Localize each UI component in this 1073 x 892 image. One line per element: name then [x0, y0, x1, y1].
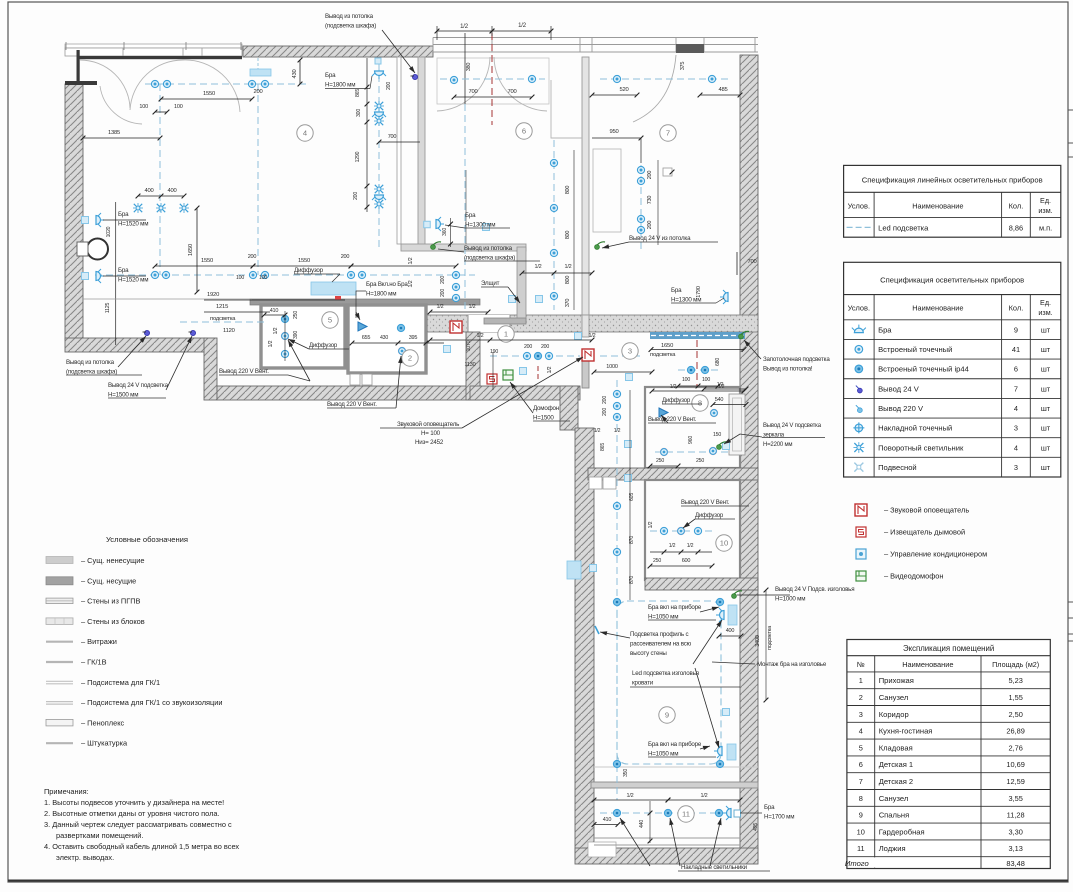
svg-text:1/2: 1/2 [468, 304, 475, 310]
svg-text:Вывод из потолка: Вывод из потолка [464, 245, 513, 252]
svg-text:250: 250 [653, 558, 661, 564]
svg-text:1/2: 1/2 [614, 428, 621, 434]
svg-text:2,76: 2,76 [1008, 743, 1022, 752]
svg-text:высоту стены: высоту стены [630, 650, 667, 657]
svg-text:Бра: Бра [671, 287, 682, 294]
svg-text:700: 700 [468, 89, 477, 95]
svg-text:– Подсистема для ГК/1 со звуко: – Подсистема для ГК/1 со звукоизоляции [81, 698, 223, 707]
svg-text:Н=1300 мм: Н=1300 мм [465, 222, 495, 229]
svg-text:3,55: 3,55 [1008, 794, 1022, 803]
svg-text:485: 485 [718, 87, 727, 93]
svg-text:Вывод 24 V из потолка: Вывод 24 V из потолка [629, 235, 691, 242]
svg-text:700: 700 [388, 134, 397, 140]
svg-text:Н= 100: Н= 100 [421, 430, 441, 437]
svg-text:шт: шт [1041, 404, 1051, 413]
svg-text:Н=1800 мм: Н=1800 мм [325, 82, 355, 89]
svg-text:1/2: 1/2 [408, 280, 414, 287]
svg-text:5,23: 5,23 [1008, 676, 1022, 685]
svg-text:Наименование: Наименование [902, 660, 953, 669]
svg-text:200: 200 [341, 254, 350, 260]
svg-text:3,13: 3,13 [1008, 844, 1022, 853]
svg-text:шт: шт [1041, 345, 1051, 354]
svg-text:950: 950 [609, 129, 618, 135]
svg-text:360: 360 [442, 228, 448, 236]
svg-text:200: 200 [248, 254, 257, 260]
svg-text:495: 495 [753, 823, 759, 831]
svg-text:680: 680 [715, 358, 721, 366]
svg-text:Детская 1: Детская 1 [879, 760, 913, 769]
svg-text:Вывод 24 V: Вывод 24 V [878, 384, 920, 393]
svg-text:605: 605 [629, 493, 635, 501]
svg-text:12,59: 12,59 [1006, 777, 1025, 786]
svg-text:3. Данный чертеж следует расс: 3. Данный чертеж следует рассматривать с… [44, 820, 232, 829]
svg-text:подсветка: подсветка [210, 316, 236, 322]
svg-text:Бра Вкл.но Бра: Бра Вкл.но Бра [366, 281, 408, 288]
svg-text:– Видеодомофон: – Видеодомофон [884, 572, 943, 581]
svg-text:– Стены из ПГПВ: – Стены из ПГПВ [81, 597, 141, 606]
svg-text:1130: 1130 [464, 362, 475, 368]
svg-text:400: 400 [144, 188, 153, 194]
svg-text:Бра: Бра [118, 211, 129, 218]
svg-text:Ед.: Ед. [1040, 196, 1051, 205]
svg-text:1/2: 1/2 [460, 24, 469, 30]
svg-text:6: 6 [1014, 365, 1018, 374]
svg-text:Led подсветка изголовья: Led подсветка изголовья [632, 670, 699, 677]
svg-text:7: 7 [666, 129, 670, 138]
svg-text:960: 960 [688, 436, 694, 444]
svg-text:41: 41 [1012, 345, 1020, 354]
svg-text:Элщит: Элщит [481, 280, 500, 287]
svg-text:м.п.: м.п. [1039, 223, 1052, 232]
svg-text:1: 1 [504, 330, 508, 339]
svg-text:700: 700 [507, 89, 516, 95]
svg-text:Бра: Бра [764, 804, 775, 811]
svg-text:Н=1520 мм: Н=1520 мм [118, 277, 148, 284]
svg-text:изм.: изм. [1038, 206, 1052, 215]
svg-text:390: 390 [293, 331, 299, 339]
svg-text:865: 865 [355, 89, 361, 97]
svg-text:Н=1300 мм: Н=1300 мм [671, 297, 701, 304]
svg-text:1215: 1215 [216, 304, 228, 310]
svg-text:1000: 1000 [606, 364, 618, 370]
svg-text:200: 200 [602, 396, 608, 404]
svg-text:1/2: 1/2 [534, 264, 541, 270]
svg-text:Ед.: Ед. [1040, 298, 1051, 307]
svg-text:100: 100 [174, 104, 183, 110]
svg-text:Вывод 220 V Вент.: Вывод 220 V Вент. [219, 368, 269, 375]
svg-text:Вывод 24 V подсветка: Вывод 24 V подсветка [108, 382, 169, 389]
svg-text:– Звуковой оповещатель: – Звуковой оповещатель [884, 506, 969, 515]
svg-text:развертками помещений.: развертками помещений. [56, 831, 143, 840]
svg-text:190: 190 [490, 349, 498, 355]
svg-text:11: 11 [857, 844, 865, 853]
svg-text:Н=1000 мм: Н=1000 мм [775, 596, 805, 603]
svg-text:200: 200 [386, 82, 392, 90]
svg-text:100: 100 [236, 275, 244, 281]
svg-text:1650: 1650 [188, 244, 194, 256]
svg-text:870: 870 [629, 576, 635, 584]
svg-text:Кол.: Кол. [1009, 201, 1024, 210]
svg-text:200: 200 [647, 221, 653, 230]
svg-text:300: 300 [356, 109, 362, 117]
svg-text:Низ= 2452: Низ= 2452 [415, 439, 444, 446]
svg-text:– Витражи: – Витражи [81, 637, 117, 646]
svg-text:100: 100 [702, 377, 710, 383]
svg-text:Встроеный точечный ip44: Встроеный точечный ip44 [878, 365, 969, 374]
svg-text:(подсветка шкафа): (подсветка шкафа) [464, 255, 515, 262]
svg-text:410: 410 [270, 308, 279, 314]
svg-text:10: 10 [720, 539, 728, 548]
svg-text:Вывод 220 V Вент.: Вывод 220 V Вент. [681, 500, 730, 506]
svg-text:200: 200 [353, 192, 359, 200]
svg-text:Н=1050 мм: Н=1050 мм [648, 751, 678, 758]
svg-text:Вывод из потолка: Вывод из потолка [325, 13, 374, 20]
svg-text:шт: шт [1041, 384, 1051, 393]
svg-text:Домофон: Домофон [533, 405, 559, 412]
svg-text:1/2: 1/2 [594, 428, 601, 434]
svg-text:5: 5 [328, 316, 332, 325]
svg-text:1/2: 1/2 [700, 793, 707, 799]
svg-text:1290: 1290 [355, 151, 361, 162]
svg-text:6: 6 [522, 127, 526, 136]
svg-text:370: 370 [565, 299, 571, 308]
svg-text:Н=1500: Н=1500 [533, 415, 554, 422]
svg-text:Н=1800 мм: Н=1800 мм [366, 291, 396, 298]
svg-text:9: 9 [859, 811, 863, 820]
svg-text:4. Оставить свободный кабель: 4. Оставить свободный кабель длиной 1,5 … [44, 842, 239, 851]
svg-text:655: 655 [362, 335, 371, 341]
svg-text:9: 9 [665, 711, 669, 720]
svg-text:– Извещатель дымовой: – Извещатель дымовой [884, 528, 965, 537]
svg-text:520: 520 [619, 87, 628, 93]
svg-text:шт: шт [1041, 443, 1051, 452]
svg-text:11,28: 11,28 [1007, 811, 1025, 820]
svg-text:Led подсветка: Led подсветка [878, 223, 929, 232]
svg-text:подсветка: подсветка [767, 625, 773, 650]
svg-text:– Сущ. ненесущие: – Сущ. ненесущие [81, 556, 144, 565]
svg-text:4: 4 [303, 129, 307, 138]
svg-text:800: 800 [565, 276, 571, 285]
svg-text:Н=2200 мм: Н=2200 мм [763, 442, 792, 448]
svg-text:1020: 1020 [106, 226, 112, 237]
svg-text:№: № [857, 660, 865, 669]
svg-text:1070: 1070 [466, 340, 472, 351]
svg-text:Поворотный светильник: Поворотный светильник [878, 443, 964, 452]
svg-text:Подвесной: Подвесной [878, 463, 917, 472]
svg-text:4: 4 [1014, 404, 1018, 413]
svg-text:250: 250 [293, 311, 299, 319]
svg-text:7: 7 [1014, 384, 1018, 393]
svg-text:Подсветка профиль с: Подсветка профиль с [630, 631, 688, 638]
svg-text:1125: 1125 [105, 303, 111, 314]
svg-text:1550: 1550 [201, 258, 213, 264]
svg-text:– Подсистема для ГК/1: – Подсистема для ГК/1 [81, 678, 160, 687]
svg-text:Бра: Бра [325, 72, 336, 79]
svg-text:1,55: 1,55 [1008, 693, 1022, 702]
svg-text:Экспликация помещений: Экспликация помещений [903, 644, 994, 653]
svg-text:Вывод 220 V Вент.: Вывод 220 V Вент. [648, 417, 697, 423]
svg-text:865: 865 [600, 443, 606, 451]
svg-text:(подсветка шкафа): (подсветка шкафа) [66, 369, 117, 376]
svg-text:730: 730 [647, 196, 653, 205]
svg-text:рассеивателем на всю: рассеивателем на всю [630, 641, 692, 648]
svg-text:6: 6 [859, 760, 863, 769]
svg-text:200: 200 [524, 344, 532, 350]
svg-text:Санузел: Санузел [879, 794, 909, 803]
svg-text:Кухня-гостиная: Кухня-гостиная [879, 727, 933, 736]
svg-text:5: 5 [859, 743, 863, 752]
svg-text:3: 3 [1014, 463, 1018, 472]
svg-text:3,30: 3,30 [1008, 827, 1022, 836]
svg-text:100: 100 [682, 377, 690, 383]
svg-text:Услов.: Услов. [848, 304, 870, 313]
svg-text:600: 600 [682, 558, 691, 564]
svg-text:250: 250 [656, 458, 664, 464]
svg-text:Услов.: Услов. [848, 201, 870, 210]
svg-text:1/2: 1/2 [669, 543, 676, 549]
svg-text:Монтаж бра на изголовье: Монтаж бра на изголовье [757, 661, 827, 668]
svg-text:7: 7 [859, 777, 863, 786]
svg-text:410: 410 [603, 817, 612, 823]
svg-text:200: 200 [253, 89, 262, 95]
svg-text:1/2: 1/2 [626, 793, 633, 799]
svg-text:800: 800 [565, 231, 571, 240]
svg-text:Вывод 220 V Вент.: Вывод 220 V Вент. [327, 401, 377, 408]
svg-text:8: 8 [859, 794, 863, 803]
svg-text:1/2: 1/2 [547, 366, 553, 373]
svg-text:3: 3 [1014, 424, 1018, 433]
svg-text:1/2: 1/2 [518, 23, 527, 29]
svg-text:1550: 1550 [203, 91, 215, 97]
svg-text:Наименование: Наименование [912, 304, 963, 313]
svg-text:Бра: Бра [878, 325, 892, 334]
svg-text:200: 200 [440, 276, 446, 284]
svg-text:Бра: Бра [118, 267, 129, 274]
svg-text:1. Высоты подвесов уточнить у: 1. Высоты подвесов уточнить у дизайнера … [44, 798, 224, 807]
svg-text:1920: 1920 [207, 292, 219, 298]
svg-text:11: 11 [682, 810, 690, 819]
svg-text:400: 400 [726, 628, 735, 634]
svg-text:4: 4 [1014, 443, 1018, 452]
svg-text:200: 200 [541, 344, 549, 350]
svg-text:100: 100 [139, 104, 148, 110]
svg-text:250: 250 [696, 458, 704, 464]
svg-text:Вывод 220 V: Вывод 220 V [878, 404, 924, 413]
svg-text:Вывод из потолка!: Вывод из потолка! [763, 366, 813, 373]
svg-text:1550: 1550 [298, 258, 310, 264]
svg-text:Бра: Бра [465, 212, 476, 219]
svg-text:395: 395 [409, 335, 418, 341]
svg-text:10,69: 10,69 [1006, 760, 1025, 769]
svg-text:2: 2 [859, 693, 863, 702]
svg-text:Итого: Итого [845, 859, 869, 868]
svg-text:100: 100 [259, 275, 267, 281]
svg-text:3: 3 [628, 347, 632, 356]
svg-text:Лоджия: Лоджия [879, 844, 906, 853]
svg-text:8,86: 8,86 [1009, 223, 1023, 232]
svg-text:шт: шт [1041, 365, 1051, 374]
svg-text:1/2: 1/2 [436, 304, 443, 310]
svg-text:Вывод 24 V Подсв. изголовья: Вывод 24 V Подсв. изголовья [775, 586, 854, 593]
svg-text:4: 4 [859, 727, 863, 736]
svg-text:1/2: 1/2 [408, 257, 414, 264]
svg-text:3: 3 [859, 710, 863, 719]
svg-text:1: 1 [859, 676, 863, 685]
svg-text:(подсветка шкафа): (подсветка шкафа) [325, 23, 376, 30]
svg-text:375: 375 [680, 62, 686, 71]
svg-text:2,50: 2,50 [1008, 710, 1022, 719]
svg-text:83,48: 83,48 [1006, 859, 1025, 868]
svg-text:Спальня: Спальня [879, 811, 910, 820]
svg-text:1/2: 1/2 [687, 543, 694, 549]
svg-text:540: 540 [715, 397, 724, 403]
svg-text:Диффузор: Диффузор [662, 398, 691, 404]
svg-text:подсветка: подсветка [650, 352, 676, 358]
svg-text:изм.: изм. [1038, 308, 1052, 317]
svg-text:Гардеробная: Гардеробная [879, 827, 925, 836]
svg-text:1/2: 1/2 [476, 333, 483, 339]
svg-text:200: 200 [440, 289, 446, 297]
svg-text:Площадь (м2): Площадь (м2) [992, 660, 1039, 669]
svg-text:Диффузор: Диффузор [309, 343, 338, 349]
svg-text:Коридор: Коридор [879, 710, 909, 719]
svg-text:Кладовая: Кладовая [879, 743, 913, 752]
svg-text:Н=1700 мм: Н=1700 мм [764, 814, 794, 821]
svg-text:Наименование: Наименование [912, 201, 963, 210]
svg-text:700: 700 [747, 259, 756, 265]
svg-text:Вывод 24 V подсветка: Вывод 24 V подсветка [763, 423, 822, 429]
svg-text:200: 200 [602, 408, 608, 416]
svg-text:Н=1500 мм: Н=1500 мм [108, 392, 138, 399]
svg-text:Спецификация осветительных при: Спецификация осветительных приборов [880, 275, 1024, 284]
svg-text:200: 200 [647, 171, 653, 180]
svg-text:1/2: 1/2 [717, 382, 724, 388]
svg-text:электр. выводах.: электр. выводах. [56, 853, 114, 862]
svg-text:10: 10 [857, 827, 865, 836]
svg-text:Встроеный точечный: Встроеный точечный [878, 345, 952, 354]
svg-text:1/2: 1/2 [588, 333, 595, 339]
svg-text:шт: шт [1041, 463, 1051, 472]
svg-text:2: 2 [408, 354, 412, 363]
svg-text:Условные обозначения: Условные обозначения [106, 535, 188, 544]
svg-text:шт: шт [1041, 325, 1051, 334]
svg-text:1/2: 1/2 [273, 327, 279, 334]
svg-text:Санузел: Санузел [879, 693, 909, 702]
svg-text:Детская 2: Детская 2 [879, 777, 913, 786]
svg-text:– Штукатурка: – Штукатурка [81, 739, 128, 748]
svg-text:3400: 3400 [755, 635, 761, 647]
svg-text:1/2: 1/2 [268, 340, 274, 347]
svg-text:800: 800 [565, 186, 571, 195]
svg-text:Спецификация линейных осветите: Спецификация линейных осветительных приб… [862, 175, 1043, 184]
svg-text:430: 430 [380, 335, 388, 341]
svg-text:26,89: 26,89 [1006, 727, 1025, 736]
svg-text:Н=1050 мм: Н=1050 мм [648, 614, 678, 621]
svg-text:шт: шт [1041, 424, 1051, 433]
svg-text:Н=1520 мм: Н=1520 мм [118, 221, 148, 228]
svg-text:350: 350 [623, 769, 629, 777]
svg-text:Диффузор: Диффузор [695, 513, 724, 519]
svg-text:430: 430 [292, 69, 298, 78]
svg-text:– Стены из блоков: – Стены из блоков [81, 617, 145, 626]
svg-text:8: 8 [698, 399, 702, 408]
svg-text:Бра вкл на приборе: Бра вкл на приборе [648, 604, 702, 611]
svg-text:1120: 1120 [223, 328, 235, 334]
svg-text:Накладной точечный: Накладной точечный [878, 424, 952, 433]
svg-text:– Пеноплекс: – Пеноплекс [81, 718, 125, 727]
svg-text:Примечания:: Примечания: [44, 787, 89, 796]
svg-text:1385: 1385 [108, 130, 120, 136]
svg-text:Диффузор: Диффузор [294, 267, 324, 274]
svg-text:Кол.: Кол. [1009, 304, 1024, 313]
svg-text:1/2: 1/2 [670, 384, 677, 390]
svg-text:400: 400 [167, 188, 176, 194]
svg-text:9: 9 [1014, 325, 1018, 334]
svg-text:– Управление кондиционером: – Управление кондиционером [884, 550, 987, 559]
svg-text:Бра вкл на приборе: Бра вкл на приборе [648, 741, 702, 748]
svg-text:1/2: 1/2 [648, 521, 654, 528]
svg-text:1/2: 1/2 [564, 264, 571, 270]
svg-text:870: 870 [629, 536, 635, 544]
svg-text:– ГК/1В: – ГК/1В [81, 658, 107, 667]
svg-text:кровати: кровати [632, 680, 654, 687]
svg-text:Вывод из потолка: Вывод из потолка [66, 359, 115, 366]
svg-text:380: 380 [466, 63, 472, 72]
svg-text:– Сущ. несущие: – Сущ. несущие [81, 576, 136, 585]
svg-text:2. Высотные отметки даны от у: 2. Высотные отметки даны от уровня чисто… [44, 809, 220, 818]
svg-text:Накладные светильники: Накладные светильники [681, 864, 748, 871]
svg-text:150: 150 [713, 432, 721, 438]
svg-text:Запотолочная подсветка: Запотолочная подсветка [763, 356, 830, 363]
svg-text:440: 440 [639, 820, 645, 828]
svg-text:Звуковой оповещатель: Звуковой оповещатель [397, 421, 459, 428]
svg-text:1650: 1650 [661, 343, 673, 349]
svg-text:Прихожая: Прихожая [879, 676, 914, 685]
